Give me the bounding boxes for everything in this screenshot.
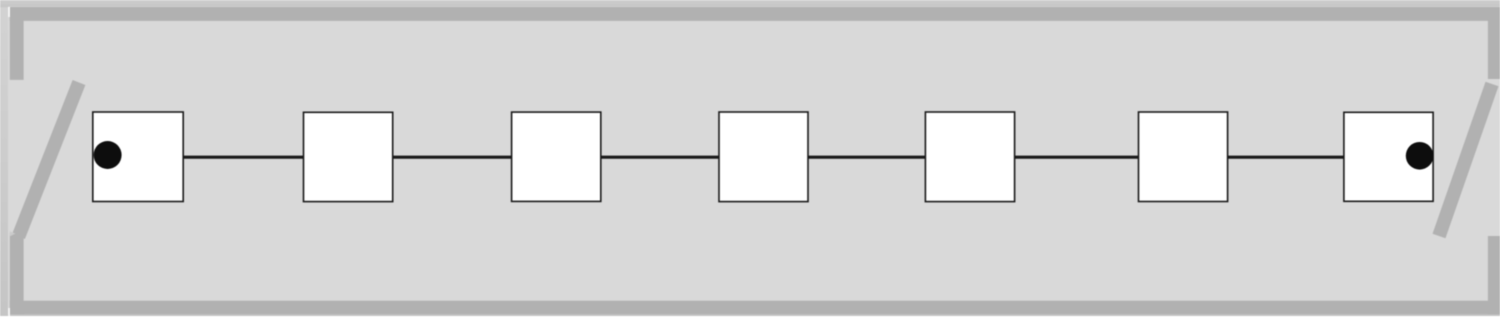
node box 7: [1344, 112, 1433, 201]
right break diagonal: [1439, 84, 1492, 236]
terminal dot left: [94, 141, 122, 169]
frame left edge highlight top: [8, 7, 10, 17]
wire 5-6: [1014, 156, 1139, 159]
frame right bottom bar: [1488, 236, 1500, 314]
left break diagonal: [19, 83, 80, 237]
frame left edge highlight bottom: [8, 308, 10, 316]
node box 5: [925, 112, 1014, 202]
frame right top bar: [1488, 7, 1500, 79]
frame top band: [10, 7, 1500, 21]
terminal dot right: [1406, 142, 1434, 170]
wire 4-5: [807, 156, 926, 159]
outer top strip shading: [0, 0, 1500, 7]
wire 1-2: [183, 156, 304, 159]
wire 3-4: [600, 156, 720, 159]
wire 2-3: [392, 156, 512, 159]
node box 4: [719, 112, 808, 202]
frame left top bar: [10, 7, 24, 80]
node box 3: [512, 112, 601, 201]
frame bottom band: [10, 301, 1500, 315]
node box 6: [1139, 112, 1228, 202]
left break joint notch: [10, 231, 16, 236]
frame left bottom bar: [10, 233, 24, 314]
node box 1: [93, 112, 183, 202]
node box 2: [304, 112, 393, 201]
wire 6-7: [1227, 156, 1344, 159]
